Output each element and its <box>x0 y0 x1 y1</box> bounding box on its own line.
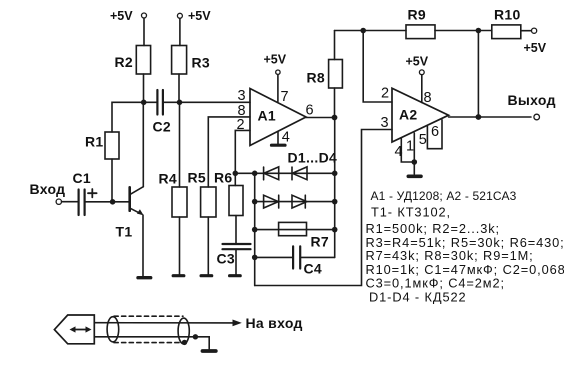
op-amp A2 <box>381 86 449 161</box>
+5V supply terminal (left, above R2) <box>110 9 147 46</box>
node (A2 ground junction dot) <box>412 159 418 165</box>
connector plug (cable drawing) <box>54 315 94 344</box>
node (base junction dot) <box>110 199 116 205</box>
node (dot to A2 output rail) <box>476 28 482 34</box>
wire (C1 to T1 base) <box>86 201 129 203</box>
resistor R8 <box>307 31 343 118</box>
diode D2 (cathode left) <box>292 167 307 180</box>
ground (T1 emitter) <box>138 276 151 279</box>
wire (C2 right plate to A1 pin 3) <box>164 101 250 103</box>
svg-text:A1: A1 <box>258 108 277 124</box>
+5V supply terminal (above R3) <box>177 9 211 46</box>
+5V supply terminal (right of R10) <box>524 28 547 55</box>
node (left rail dots) <box>252 171 258 261</box>
svg-text:A2: A2 <box>399 107 418 123</box>
wire (R6 node to diode network left rail) <box>235 172 254 174</box>
node (right rail dots) <box>332 171 338 233</box>
svg-text:C3=0,1мкФ; C4=2м2;: C3=0,1мкФ; C4=2м2; <box>366 275 505 290</box>
svg-text:+5V: +5V <box>264 53 287 67</box>
svg-text:C4: C4 <box>304 261 323 277</box>
svg-text:R8: R8 <box>307 70 326 86</box>
ground (A1 pin 4) <box>272 144 286 147</box>
capacitor C4 <box>293 246 322 276</box>
node (A2 output junction dot) <box>476 114 482 120</box>
cable shield ellipse (near plug) <box>107 317 119 342</box>
svg-text:R5: R5 <box>188 170 207 186</box>
svg-text:D1-D4 - КД522: D1-D4 - КД522 <box>369 289 467 304</box>
wire (A1 pin 4 stub) <box>277 132 279 144</box>
diode D3 (cathode right) <box>264 195 279 208</box>
wire (A1 pin 2 to R6 top node) <box>235 130 250 185</box>
resistor R4 <box>159 171 188 275</box>
resistor R7 <box>279 222 329 249</box>
wire (A2 output to Выход) <box>449 116 531 118</box>
op-amp A1 <box>237 88 314 146</box>
wire (A2 pin 4 to ground node) <box>401 138 414 162</box>
cable shield dashed outline (top) <box>114 315 183 317</box>
node (shield tap dots) <box>182 340 187 345</box>
resistor R5 <box>188 170 217 275</box>
svg-text:T1: T1 <box>116 224 133 240</box>
wire (A2 pin 3 down to diode network bottom wire) <box>255 130 392 286</box>
svg-text:6: 6 <box>431 124 439 140</box>
wire (A2 pin 1 down) <box>413 133 415 174</box>
svg-text:R6: R6 <box>214 170 233 186</box>
svg-text:C2: C2 <box>153 119 172 135</box>
svg-text:R1=500k; R2=2...3k;: R1=500k; R2=2...3k; <box>366 221 500 236</box>
ground (cable shield) <box>203 349 216 353</box>
svg-text:5: 5 <box>419 132 427 148</box>
wire (node wire from R1 corner to C2 left plate) <box>112 102 157 132</box>
svg-text:R7=43k; R8=30k; R9=1М;: R7=43k; R8=30k; R9=1М; <box>366 248 534 263</box>
component values text block <box>366 189 564 304</box>
svg-text:3: 3 <box>238 88 246 104</box>
svg-text:7: 7 <box>281 89 289 105</box>
svg-text:2: 2 <box>237 117 245 133</box>
resistor R2 <box>115 46 151 103</box>
cable shield dashed outline (bottom) <box>114 342 183 344</box>
svg-text:R2: R2 <box>115 54 134 70</box>
wire (diode network left rail) <box>254 173 256 285</box>
svg-text:1: 1 <box>406 139 414 155</box>
svg-text:4: 4 <box>282 130 290 146</box>
node (junction dot C2/R3/R4/pin3) <box>177 100 183 106</box>
node (A1 output junction dot) <box>332 115 338 121</box>
wire (top dot down to A2 pin 2) <box>363 31 392 103</box>
wire (A1 output pin 6) <box>306 117 335 119</box>
svg-text:+5V: +5V <box>110 9 133 23</box>
capacitor C1 (polarized) <box>73 170 97 215</box>
ground (R4) <box>173 274 184 277</box>
svg-text:R7: R7 <box>311 234 330 250</box>
svg-text:R4: R4 <box>159 171 178 187</box>
cable shield ellipse (far end) <box>178 318 189 344</box>
wire (R9/R10 dot down to output) <box>477 31 479 118</box>
resistor R10 <box>492 7 532 39</box>
svg-text:D1...D4: D1...D4 <box>288 150 338 166</box>
output terminal Выход <box>508 92 556 120</box>
wire (R9 to R10) <box>435 30 492 32</box>
wire (A1 pin 8 to R5) <box>208 117 250 187</box>
wire (top feedback wire R8 to R9) <box>335 30 407 32</box>
svg-text:R3: R3 <box>192 55 211 71</box>
svg-text:+5V: +5V <box>524 41 547 55</box>
svg-text:2: 2 <box>381 86 389 102</box>
node (R6 top junction dot) <box>233 171 239 177</box>
+5V supply terminal (A2 pin 8) <box>406 55 429 103</box>
node (top wire dot to A2 pin 2) <box>360 28 366 34</box>
svg-text:Выход: Выход <box>508 92 556 108</box>
wire (node to R4) <box>179 102 181 187</box>
ground (R5) <box>201 274 212 277</box>
resistor R9 <box>406 7 435 39</box>
svg-text:8: 8 <box>424 90 432 106</box>
diode D1 (cathode left) <box>264 167 279 180</box>
svg-text:R9: R9 <box>408 7 427 23</box>
wire (diode row 2) <box>255 201 335 203</box>
ground (A2) <box>408 175 421 179</box>
svg-text:C1: C1 <box>73 170 92 186</box>
node (junction dot R2/C2/collector) <box>141 100 147 106</box>
+5V supply terminal (A1 pin 7) <box>264 53 287 102</box>
wire (diode network right rail) <box>334 118 336 258</box>
svg-text:Т1- КТ3102,: Т1- КТ3102, <box>371 205 451 220</box>
wire (R7 row) <box>255 229 335 231</box>
wire (C4 row) <box>255 256 292 258</box>
svg-text:Вход: Вход <box>30 181 66 197</box>
svg-text:+5V: +5V <box>188 9 211 23</box>
resistor R1 <box>85 132 119 202</box>
svg-text:+5V: +5V <box>406 55 429 69</box>
svg-text:A1 - УД1208; A2 - 521СА3: A1 - УД1208; A2 - 521СА3 <box>371 189 517 203</box>
transistor T1 <box>116 102 144 276</box>
diode D4 (cathode right) <box>292 195 307 208</box>
capacitor C2 <box>153 90 172 135</box>
resistor R3 <box>172 46 210 103</box>
wire (cable shield conductor) <box>94 337 209 349</box>
svg-text:6: 6 <box>306 103 314 119</box>
ground (R6 / C3) <box>230 274 241 277</box>
svg-text:3: 3 <box>381 115 389 131</box>
svg-text:R10: R10 <box>494 7 521 23</box>
wire (diode row 1) <box>255 172 335 174</box>
resistor R6 <box>214 170 243 244</box>
input terminal Вход <box>30 181 78 204</box>
capacitor C3 <box>217 244 251 274</box>
svg-text:R1: R1 <box>85 134 104 150</box>
wire (cable centre conductor with arrow, На вход) <box>94 315 302 331</box>
wire (A2 pins 5-6 strap loop) <box>427 120 442 149</box>
svg-text:C3: C3 <box>217 251 236 267</box>
svg-text:На вход: На вход <box>246 315 303 331</box>
